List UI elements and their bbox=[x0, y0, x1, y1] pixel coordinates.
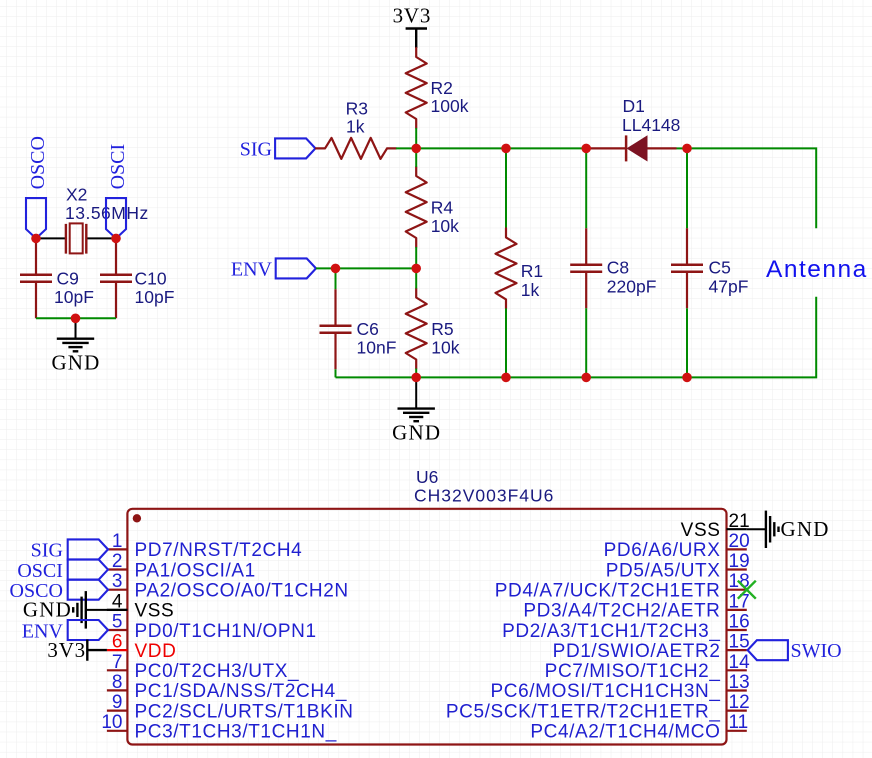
junction C8 bottom bbox=[581, 373, 591, 383]
junction crystal gnd bbox=[71, 314, 81, 324]
svg-text:3V3: 3V3 bbox=[47, 638, 86, 662]
port SIG to pin1 bbox=[31, 539, 108, 561]
pin 8 PC1/SDA/NSS/T2CH4_ bbox=[107, 672, 347, 702]
svg-text:14: 14 bbox=[729, 652, 751, 673]
svg-text:PC0/T2CH3/UTX_: PC0/T2CH3/UTX_ bbox=[135, 661, 300, 682]
svg-text:10pF: 10pF bbox=[54, 287, 94, 307]
port OSCI to pin2 bbox=[17, 560, 108, 582]
pin1 indicator dot bbox=[133, 514, 141, 522]
svg-text:16: 16 bbox=[729, 612, 750, 633]
junction GND row main bbox=[411, 373, 421, 383]
pin 10 PC3/T1CH3/T1CH1N_ bbox=[101, 712, 337, 742]
wire R2 to node bbox=[415, 128, 417, 148]
wire R3 to node bbox=[396, 147, 416, 149]
svg-text:9: 9 bbox=[112, 692, 123, 713]
svg-text:17: 17 bbox=[729, 591, 750, 612]
svg-text:1k: 1k bbox=[521, 280, 540, 300]
svg-text:15: 15 bbox=[729, 632, 750, 653]
pin 14 PC7/MISO/T1CH2_ bbox=[545, 652, 750, 682]
svg-text:PA2/OSCO/A0/T1CH2N: PA2/OSCO/A0/T1CH2N bbox=[135, 581, 349, 602]
svg-text:PD1/SWIO/AETR2: PD1/SWIO/AETR2 bbox=[553, 641, 721, 662]
ground main GND bbox=[398, 377, 435, 421]
svg-text:GND: GND bbox=[51, 351, 100, 375]
ground crystal GND bbox=[57, 318, 94, 351]
wire R1 top bbox=[505, 148, 507, 228]
junction crystal left bbox=[31, 234, 41, 244]
svg-text:5: 5 bbox=[112, 612, 123, 633]
resistor R1 bbox=[496, 228, 517, 308]
capacitor C8 bbox=[570, 228, 602, 308]
svg-text:OSCI: OSCI bbox=[107, 144, 129, 190]
svg-text:OSCI: OSCI bbox=[17, 560, 63, 582]
svg-text:6: 6 bbox=[112, 632, 123, 653]
wire SIG row node to diode bbox=[416, 147, 586, 149]
wire right top run bbox=[687, 148, 816, 228]
svg-text:C6: C6 bbox=[357, 319, 379, 339]
svg-text:Antenna: Antenna bbox=[766, 256, 868, 283]
svg-text:PC7/MISO/T1CH2_: PC7/MISO/T1CH2_ bbox=[545, 661, 721, 682]
svg-text:PC6/MOSI/T1CH1CH3N_: PC6/MOSI/T1CH1CH3N_ bbox=[491, 681, 721, 702]
svg-text:10nF: 10nF bbox=[357, 338, 397, 358]
svg-text:GND: GND bbox=[23, 598, 72, 622]
junction ENV C6 bbox=[331, 264, 341, 274]
svg-text:VDD: VDD bbox=[135, 641, 177, 662]
svg-text:21: 21 bbox=[729, 511, 750, 532]
IC U6 body bbox=[127, 509, 726, 745]
svg-text:CH32V003F4U6: CH32V003F4U6 bbox=[414, 486, 554, 506]
svg-text:1k: 1k bbox=[346, 117, 365, 137]
junction SIG node bbox=[411, 144, 421, 154]
pin 9 PC2/SCL/URTS/T1BKIN bbox=[107, 692, 354, 722]
svg-text:19: 19 bbox=[729, 551, 750, 572]
svg-text:R4: R4 bbox=[431, 198, 454, 218]
svg-text:R3: R3 bbox=[346, 98, 368, 118]
port ENV to pin5 bbox=[22, 620, 108, 642]
junction C5 bottom bbox=[682, 373, 692, 383]
pin 18 PD4/A7/UCK/T2CH1ETR bbox=[495, 571, 750, 601]
pin 5 PD0/T1CH1N/OPN1 bbox=[107, 612, 317, 642]
pin 19 PD5/A5/UTX bbox=[606, 551, 750, 581]
svg-text:LL4148: LL4148 bbox=[622, 115, 680, 135]
svg-text:PC3/T1CH3/T1CH1N_: PC3/T1CH3/T1CH1N_ bbox=[135, 722, 337, 743]
junction C5 top bbox=[682, 144, 692, 154]
junction C8 top bbox=[581, 144, 591, 154]
wire C6 bottom bbox=[335, 369, 337, 377]
wire R4 to ENV row bbox=[415, 247, 417, 268]
svg-text:PD2/A3/T1CH1/T2CH3_: PD2/A3/T1CH1/T2CH3_ bbox=[502, 621, 720, 642]
port OSCI bbox=[106, 144, 129, 239]
svg-text:PD3/A4/T2CH2/AETR: PD3/A4/T2CH2/AETR bbox=[523, 601, 720, 622]
svg-text:SIG: SIG bbox=[31, 540, 63, 562]
svg-text:GND: GND bbox=[392, 421, 441, 445]
junction ENV R4 bbox=[411, 264, 421, 274]
svg-text:PD5/A5/UTX: PD5/A5/UTX bbox=[606, 560, 721, 581]
wire ENV row bbox=[316, 267, 416, 269]
svg-text:100k: 100k bbox=[431, 96, 469, 116]
svg-text:C8: C8 bbox=[607, 258, 629, 278]
wire right bottom run bbox=[336, 297, 817, 378]
port SWIO to pin15 bbox=[748, 640, 842, 662]
svg-text:PD7/NRST/T2CH4: PD7/NRST/T2CH4 bbox=[135, 540, 303, 561]
wire crystal right black bbox=[86, 237, 116, 239]
svg-text:2: 2 bbox=[112, 551, 123, 572]
port OSCO to pin3 bbox=[10, 580, 108, 602]
svg-text:PA1/OSCI/A1: PA1/OSCI/A1 bbox=[135, 560, 256, 581]
pin 1 PD7/NRST/T2CH4 bbox=[107, 531, 302, 561]
svg-text:8: 8 bbox=[112, 672, 123, 693]
capacitor C5 bbox=[671, 228, 703, 308]
junction crystal right bbox=[111, 234, 121, 244]
svg-text:X2: X2 bbox=[66, 185, 87, 205]
svg-text:PD4/A7/UCK/T2CH1ETR: PD4/A7/UCK/T2CH1ETR bbox=[495, 581, 721, 602]
wire R1 bottom bbox=[505, 308, 507, 377]
svg-text:PC5/SCK/T1ETR/T2CH1ETR_: PC5/SCK/T1ETR/T2CH1ETR_ bbox=[446, 701, 721, 722]
svg-text:10k: 10k bbox=[431, 216, 459, 236]
pin 2 PA1/OSCI/A1 bbox=[107, 551, 256, 581]
pin 6 VDD bbox=[107, 632, 177, 662]
svg-text:SIG: SIG bbox=[240, 139, 272, 161]
junction R1 top bbox=[501, 144, 511, 154]
svg-text:R5: R5 bbox=[431, 319, 453, 339]
port ENV bbox=[231, 258, 316, 280]
svg-text:R1: R1 bbox=[521, 261, 543, 281]
svg-text:3: 3 bbox=[112, 571, 123, 592]
svg-text:13: 13 bbox=[729, 672, 750, 693]
wire C8 bottom bbox=[585, 308, 587, 377]
wire C5 bottom bbox=[686, 308, 688, 377]
wire C5 top bbox=[686, 148, 688, 228]
svg-text:VSS: VSS bbox=[135, 601, 175, 622]
svg-text:C9: C9 bbox=[57, 269, 79, 289]
svg-text:C10: C10 bbox=[135, 269, 167, 289]
pin 21 VSS bbox=[681, 511, 750, 541]
capacitor C10 bbox=[100, 238, 132, 318]
pin 16 PD2/A3/T1CH1/T2CH3_ bbox=[502, 612, 750, 642]
resistor R3 bbox=[316, 138, 396, 159]
pin 17 PD3/A4/T2CH2/AETR bbox=[523, 591, 749, 621]
svg-text:U6: U6 bbox=[416, 467, 438, 487]
resistor R4 bbox=[406, 167, 427, 247]
svg-text:SWIO: SWIO bbox=[791, 640, 842, 662]
wire C6 top bbox=[335, 268, 337, 289]
svg-text:ENV: ENV bbox=[231, 259, 273, 281]
pin 12 PC5/SCK/T1ETR/T2CH1ETR_ bbox=[446, 692, 750, 722]
pin 4 VSS bbox=[107, 591, 174, 621]
resistor R5 bbox=[406, 289, 427, 369]
svg-text:12: 12 bbox=[729, 692, 750, 713]
svg-text:10k: 10k bbox=[431, 338, 459, 358]
svg-text:7: 7 bbox=[112, 652, 123, 673]
pin 13 PC6/MOSI/T1CH1CH3N_ bbox=[491, 672, 750, 702]
svg-text:D1: D1 bbox=[623, 96, 645, 116]
wire node to R4 bbox=[415, 148, 417, 167]
svg-text:PC4/A2/T1CH4/MCO: PC4/A2/T1CH4/MCO bbox=[530, 722, 720, 743]
capacitor C9 bbox=[20, 238, 52, 318]
svg-text:OSCO: OSCO bbox=[27, 136, 49, 189]
crystal X2 bbox=[66, 223, 86, 253]
power 3V3 at pin6 bbox=[87, 640, 107, 661]
wire crystal bottom green bbox=[36, 317, 116, 319]
svg-text:C5: C5 bbox=[709, 258, 731, 278]
ground GND at pin4 bbox=[73, 591, 127, 629]
svg-text:220pF: 220pF bbox=[607, 277, 657, 297]
port OSCO bbox=[26, 136, 49, 238]
pin 7 PC0/T2CH3/UTX_ bbox=[107, 652, 299, 682]
diode D1 bbox=[586, 135, 676, 161]
pin 20 PD6/A6/URX bbox=[604, 531, 750, 561]
wire C8 top bbox=[585, 148, 587, 228]
svg-text:10pF: 10pF bbox=[135, 287, 175, 307]
svg-text:10: 10 bbox=[101, 712, 122, 733]
pin 11 PC4/A2/T1CH4/MCO bbox=[530, 712, 748, 742]
svg-text:1: 1 bbox=[112, 531, 123, 552]
capacitor C6 bbox=[320, 289, 352, 369]
resistor R2 bbox=[406, 48, 427, 128]
wire R5 to GND row bbox=[415, 369, 417, 378]
svg-text:47pF: 47pF bbox=[709, 277, 749, 297]
pin 15 PD1/SWIO/AETR2 bbox=[553, 632, 750, 662]
svg-text:PD6/A6/URX: PD6/A6/URX bbox=[604, 540, 721, 561]
wire crystal left black bbox=[36, 237, 66, 239]
svg-text:3V3: 3V3 bbox=[393, 4, 432, 28]
svg-text:20: 20 bbox=[729, 531, 750, 552]
svg-text:PD0/T1CH1N/OPN1: PD0/T1CH1N/OPN1 bbox=[135, 621, 317, 642]
no-connect flag pin18 bbox=[738, 581, 756, 599]
pin 3 PA2/OSCO/A0/T1CH2N bbox=[107, 571, 349, 601]
svg-text:VSS: VSS bbox=[681, 520, 721, 541]
svg-text:R2: R2 bbox=[431, 78, 453, 98]
wire diode to right node bbox=[677, 147, 688, 149]
svg-text:PC1/SDA/NSS/T2CH4_: PC1/SDA/NSS/T2CH4_ bbox=[135, 681, 347, 702]
ground GND at pin21 bbox=[747, 511, 779, 548]
svg-text:GND: GND bbox=[781, 517, 830, 541]
junction R1 bottom bbox=[501, 373, 511, 383]
svg-text:PC2/SCL/URTS/T1BKIN: PC2/SCL/URTS/T1BKIN bbox=[135, 701, 354, 722]
wire ENV node to R5 bbox=[415, 268, 417, 288]
port SIG bbox=[240, 138, 316, 160]
svg-text:11: 11 bbox=[729, 712, 749, 733]
